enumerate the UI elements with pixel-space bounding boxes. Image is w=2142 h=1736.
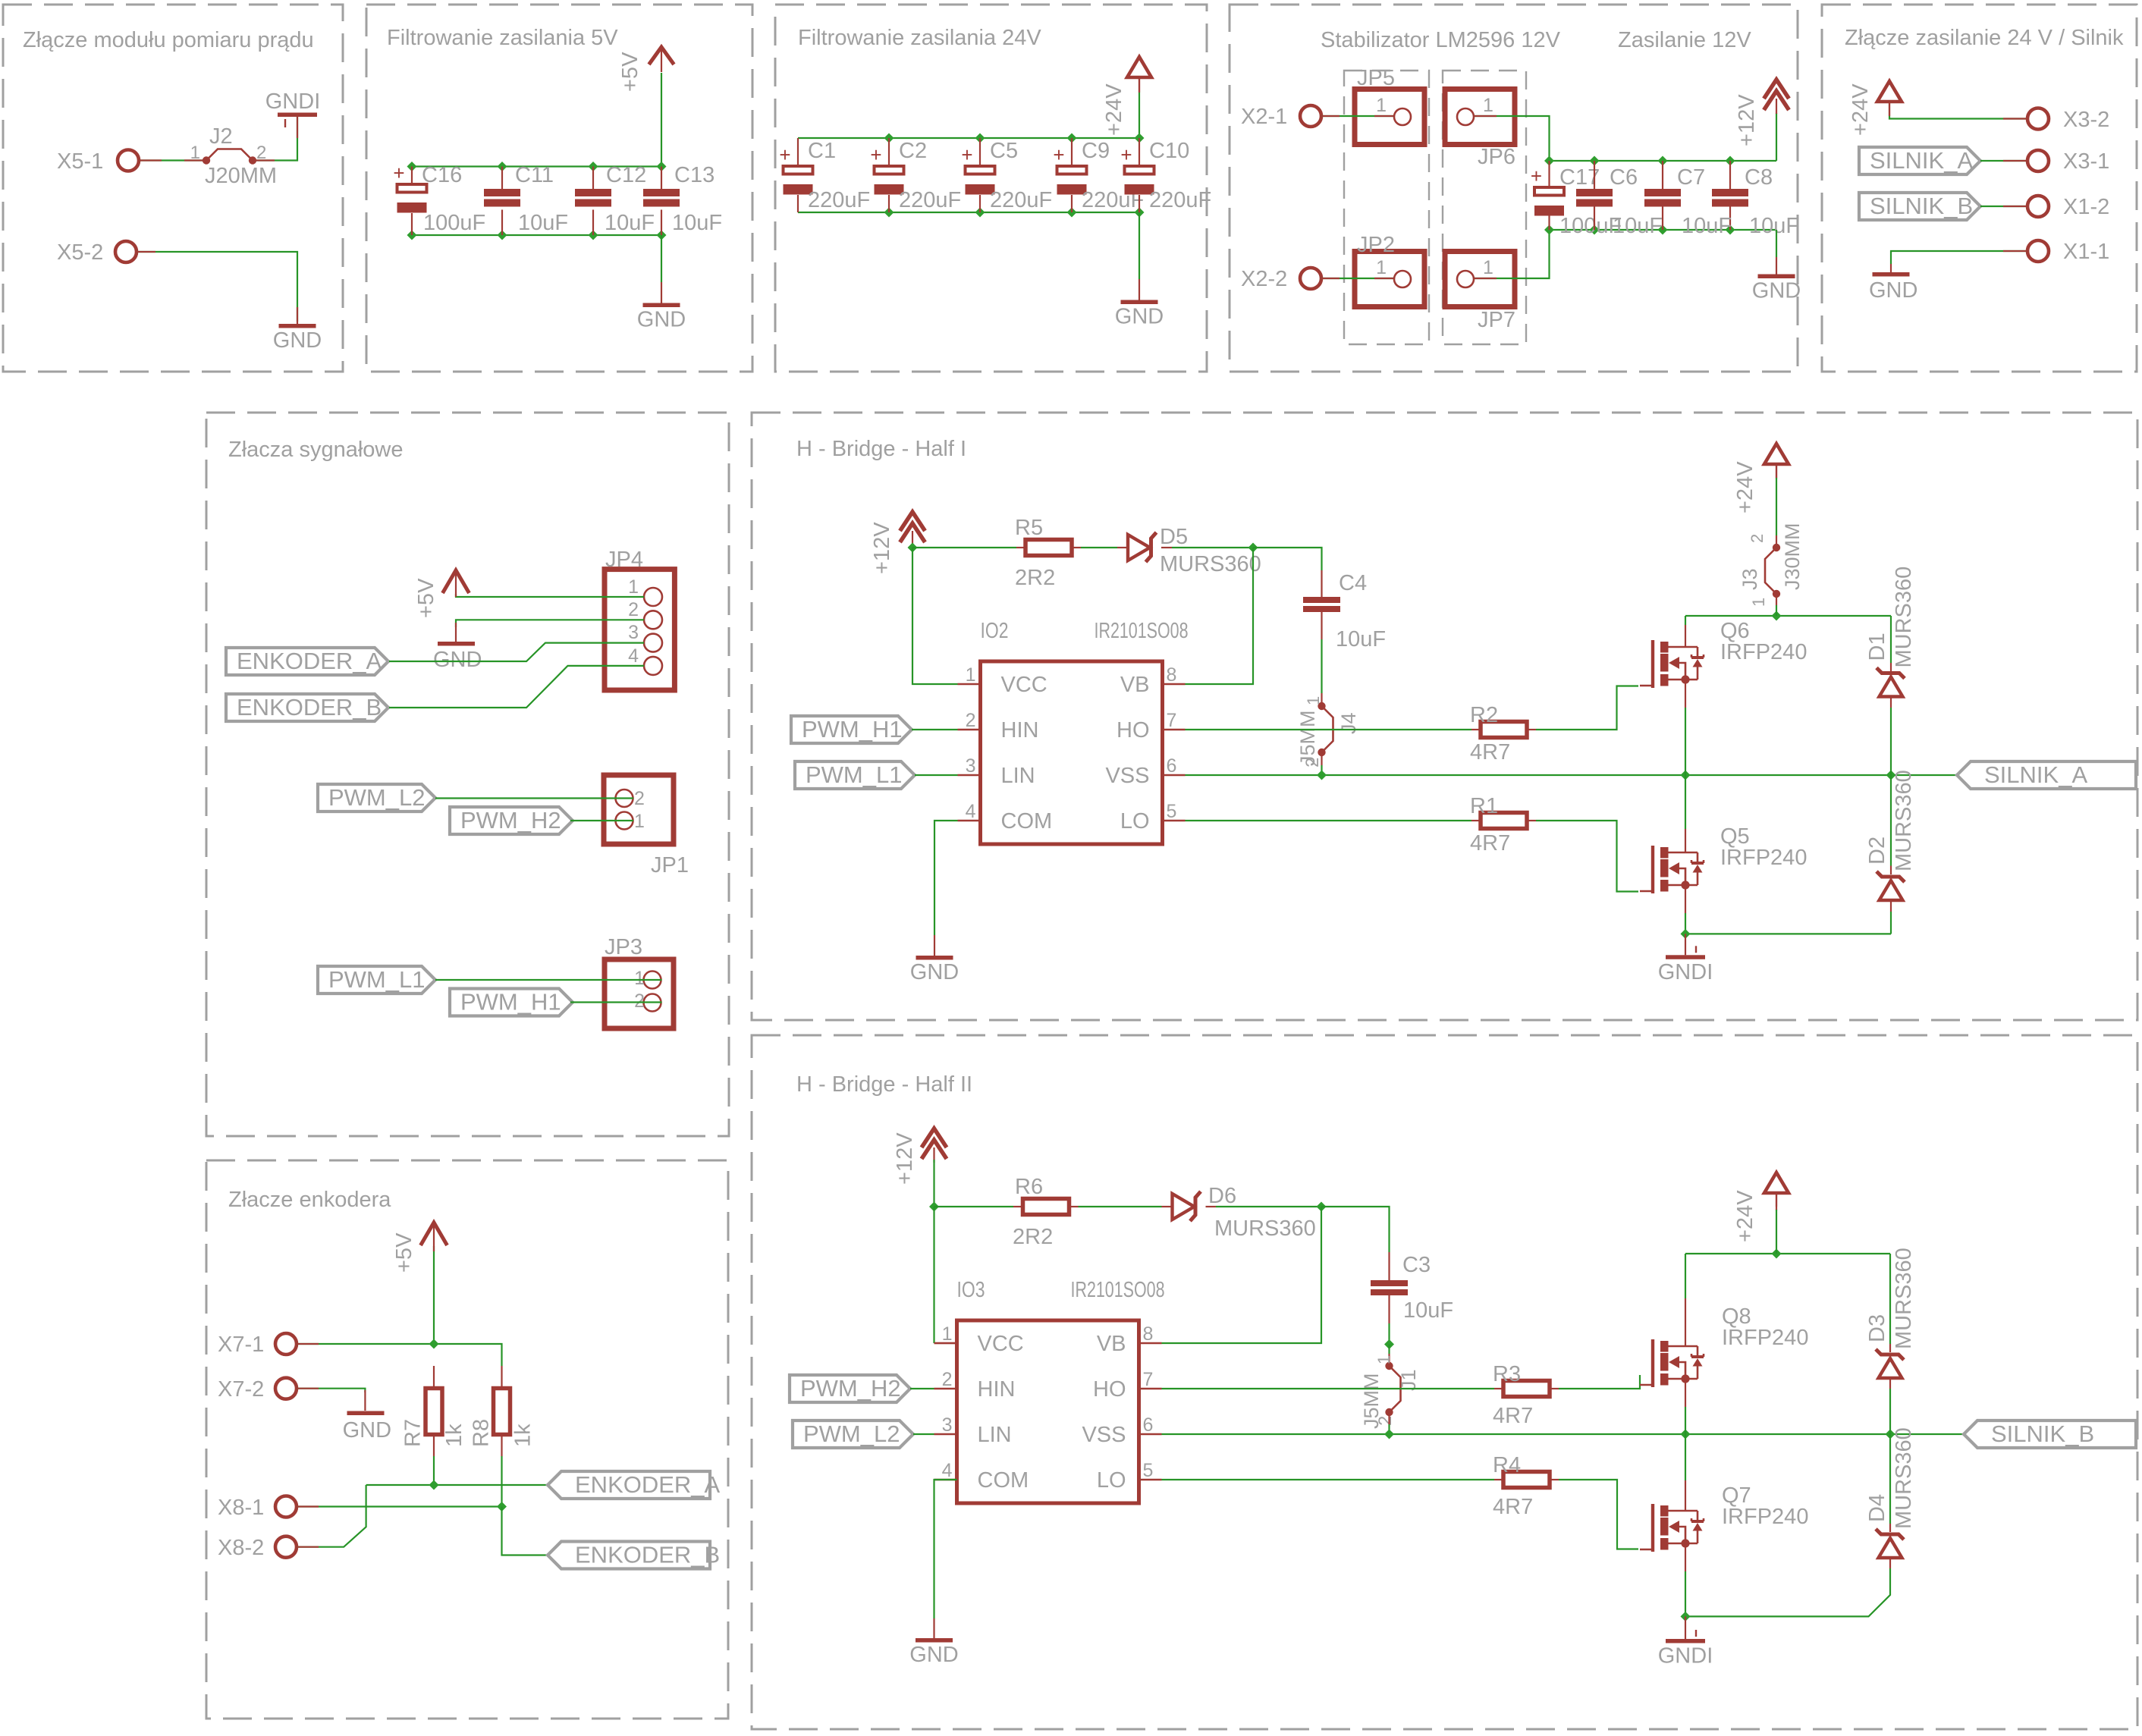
wire J3 to rail: [1776, 605, 1777, 616]
svg-text:MURS360: MURS360: [1160, 552, 1261, 576]
svg-text:VB: VB: [1097, 1332, 1126, 1356]
net HO to R2: [1186, 729, 1472, 730]
svg-text:X2-1: X2-1: [1241, 105, 1287, 129]
supply +5V (signals box): [443, 570, 470, 593]
capacitor C16: [393, 162, 426, 213]
svg-text:+12V: +12V: [870, 522, 894, 574]
net LO to R1: [1186, 820, 1472, 821]
svg-text:X8-2: X8-2: [218, 1536, 264, 1560]
svg-text:PWM_L2: PWM_L2: [328, 784, 425, 811]
svg-text:D6: D6: [1208, 1184, 1236, 1208]
wire Q6 source to SILNIK_A: [1685, 708, 1686, 775]
svg-text:X5-1: X5-1: [57, 149, 103, 174]
svg-text:C6: C6: [1610, 165, 1638, 190]
net flag PWM_H2 (signals box): [450, 807, 573, 834]
junction top rail 24V x=1413: [1067, 133, 1077, 143]
svg-text:J1: J1: [1397, 1369, 1420, 1391]
svg-text:10uF: 10uF: [1749, 214, 1799, 238]
capacitor C13: [643, 189, 680, 207]
svg-text:7: 7: [1143, 1369, 1154, 1390]
junction top rail x=662: [498, 162, 507, 171]
wire +5V down: [433, 1246, 435, 1344]
ground GNDI (half II): [1658, 1616, 1713, 1668]
capacitor C5: [961, 143, 994, 195]
svg-text:+24V: +24V: [1102, 83, 1126, 136]
wire R4 to Q7 gate: [1559, 1480, 1638, 1549]
junction bottom rail x=872: [657, 231, 667, 240]
wire J1 to VSS (half II): [1388, 1424, 1390, 1435]
junction D3-D4/SILNIK_B: [1886, 1430, 1895, 1439]
svg-text:VCC: VCC: [978, 1332, 1024, 1356]
net D5 to VB/C4: [1172, 547, 1253, 548]
wire D3 to SILNIK_B: [1889, 1389, 1891, 1434]
capacitor C8: [1712, 189, 1748, 207]
svg-text:C11: C11: [515, 163, 554, 187]
junction bottom rail 24V x=1292: [975, 208, 985, 218]
svg-text:D2: D2: [1865, 837, 1889, 865]
wire R2 to Q6 gate: [1536, 686, 1638, 730]
junction +12V rail: [908, 543, 918, 553]
svg-text:HO: HO: [1117, 718, 1150, 742]
net +12V to R5: [912, 547, 1016, 548]
svg-text:PWM_H2: PWM_H2: [800, 1375, 901, 1402]
jumper J1: [1385, 1362, 1400, 1416]
net flag ENKODER_B (encoder box): [548, 1542, 720, 1569]
net top rail 24V: [798, 137, 1139, 139]
diode D2 MURS360: [1877, 871, 1905, 900]
svg-text:ENKODER_A: ENKODER_A: [237, 648, 382, 674]
capacitor C9: [1053, 143, 1086, 195]
inner dashed outline around JP5/JP2: [1344, 71, 1429, 344]
svg-text:Filtrowanie zasilania 24V: Filtrowanie zasilania 24V: [798, 26, 1041, 50]
svg-text:2: 2: [634, 788, 645, 809]
svg-text:PWM_L1: PWM_L1: [806, 761, 902, 788]
junction top rail 24V x=1502: [1135, 133, 1145, 143]
junction bottom rail x=662: [498, 231, 507, 240]
wire R1 to Q5 gate: [1536, 821, 1638, 892]
ground GNDI (half I): [1658, 934, 1713, 984]
svg-text:1: 1: [1483, 95, 1493, 116]
svg-text:1: 1: [1749, 598, 1768, 607]
wire R8 line to ENKODER_B: [502, 1507, 548, 1555]
junction 12V bottom x=2281: [1726, 225, 1735, 235]
svg-text:7: 7: [1167, 710, 1177, 731]
svg-text:4R7: 4R7: [1493, 1495, 1533, 1519]
svg-text:J2: J2: [209, 124, 233, 149]
junction Q5 source/GNDI: [1681, 929, 1691, 939]
ground GND (half I): [910, 935, 959, 984]
wire SILNIK_B to D4: [1889, 1434, 1891, 1524]
svg-text:Filtrowanie zasilania 5V: Filtrowanie zasilania 5V: [387, 26, 618, 50]
junction top rail x=782: [589, 162, 598, 171]
junction 12V bottom x=2042.5: [1544, 225, 1554, 235]
svg-text:+24V: +24V: [1733, 1190, 1757, 1242]
svg-text:R8: R8: [470, 1419, 494, 1447]
signals box frame: Złacza sygnałowe: [206, 413, 729, 1136]
box A frame: Złącze modułu pomiaru prądu: [3, 5, 343, 372]
svg-text:10uF: 10uF: [1403, 1298, 1453, 1323]
junction top rail x=543: [407, 162, 417, 171]
svg-text:LIN: LIN: [1001, 764, 1035, 788]
svg-text:X3-2: X3-2: [2063, 108, 2109, 132]
svg-text:C4: C4: [1339, 571, 1367, 595]
svg-text:+: +: [961, 143, 972, 166]
svg-text:1: 1: [634, 968, 645, 989]
svg-text:D1: D1: [1865, 633, 1889, 661]
svg-text:Złącze zasilanie 24 V / Silnik: Złącze zasilanie 24 V / Silnik: [1845, 26, 2124, 50]
svg-text:+5V: +5V: [618, 52, 642, 92]
wire rail to GND (box C): [1139, 212, 1140, 279]
wire PWM_L2 to LIN: [913, 1433, 934, 1435]
junction 12V top x=2192: [1658, 156, 1668, 166]
svg-text:H - Bridge - Half I: H - Bridge - Half I: [796, 437, 966, 461]
svg-text:SILNIK_A: SILNIK_A: [1870, 147, 1973, 174]
junction top rail 24V x=1172: [884, 133, 894, 143]
supply +5V (encoder box): [421, 1223, 448, 1245]
svg-text:6: 6: [1167, 755, 1177, 777]
net top rail 5V: [412, 165, 661, 167]
svg-text:+12V: +12V: [1735, 94, 1759, 146]
box E frame: Złącze zasilanie 24 V / Silnik: [1822, 5, 2137, 372]
ground GNDI (box A): [265, 89, 321, 127]
junction Q7 source/GNDI: [1681, 1612, 1691, 1621]
svg-text:3: 3: [628, 622, 639, 643]
header block JP4: [605, 570, 674, 690]
wire +12V to rail (half II): [933, 1160, 934, 1207]
capacitor C7: [1644, 189, 1681, 207]
net flag PWM_L1 (signals box): [318, 966, 435, 994]
svg-text:VCC: VCC: [1001, 673, 1047, 697]
connector pad X2-1: [1241, 105, 1321, 129]
junction R7/ENKODER_A: [429, 1480, 439, 1490]
svg-text:GND: GND: [1869, 278, 1917, 303]
svg-text:D4: D4: [1865, 1494, 1889, 1522]
junction 12V top x=2281: [1726, 156, 1735, 166]
svg-text:Zasilanie 12V: Zasilanie 12V: [1618, 28, 1751, 52]
svg-text:3: 3: [942, 1414, 953, 1436]
svg-text:1: 1: [1483, 257, 1493, 278]
svg-text:VB: VB: [1120, 673, 1150, 697]
junction VB node: [1248, 543, 1258, 553]
svg-text:C16: C16: [422, 163, 462, 187]
junction bottom rail 24V x=1413: [1067, 208, 1077, 218]
svg-text:VSS: VSS: [1082, 1423, 1126, 1447]
net R5 to D5: [1081, 547, 1117, 548]
svg-text:GND: GND: [637, 308, 686, 332]
connector pad X5-2: [57, 240, 137, 265]
jumper J4: [1318, 702, 1333, 756]
resistor R4: [1503, 1472, 1550, 1488]
svg-text:4R7: 4R7: [1470, 831, 1510, 855]
header block JP3: [605, 959, 674, 1028]
connector pad X8-1: [218, 1496, 297, 1520]
svg-text:JP5: JP5: [1357, 66, 1395, 90]
wire SILNIK_A to D2: [1890, 775, 1892, 866]
wire Q5 source to GNDI rail: [1685, 913, 1686, 934]
junction X8-1/R8: [497, 1502, 507, 1512]
svg-text:220uF: 220uF: [808, 188, 870, 212]
wire rail to +12V: [1776, 113, 1777, 161]
wire JP4 pin2 to GND: [456, 620, 644, 627]
ground GND (signals box): [433, 623, 482, 672]
svg-text:+24V: +24V: [1733, 461, 1757, 513]
resistor R1: [1481, 813, 1527, 829]
svg-text:D3: D3: [1865, 1314, 1889, 1342]
svg-text:R7: R7: [401, 1419, 426, 1447]
box D frame: Stabilizator LM2596 12V: [1230, 5, 1798, 372]
net bottom rail 5V: [412, 234, 661, 236]
net flag PWM_L1 (half I): [795, 761, 915, 789]
wire X5-2 to GND: [137, 252, 297, 322]
svg-text:1: 1: [1374, 1355, 1393, 1364]
transistor Q8 IRFP240: [1640, 1304, 1808, 1387]
jumper block JP2: [1355, 233, 1424, 307]
svg-text:MURS360: MURS360: [1892, 1427, 1916, 1529]
wire C3 to J1: [1388, 1323, 1390, 1345]
H-Bridge Half I frame: [752, 413, 2137, 1020]
capacitor C17: [1531, 165, 1564, 216]
svg-text:X7-2: X7-2: [218, 1377, 264, 1402]
IC IO2 IR2101SO08: [958, 619, 1189, 844]
resistor R6: [1023, 1199, 1069, 1215]
svg-text:10uF: 10uF: [605, 211, 655, 235]
svg-text:J4: J4: [1337, 712, 1360, 734]
svg-text:1: 1: [1376, 257, 1387, 278]
connector pad X2-2: [1241, 267, 1321, 291]
junction 12V top x=2042.5: [1544, 156, 1554, 166]
svg-text:+24V: +24V: [1848, 83, 1873, 136]
resistor R2: [1481, 722, 1527, 738]
junction top rail x=872: [657, 162, 667, 171]
wire VB to bootstrap: [1186, 548, 1254, 684]
supply +12V (box D): [1764, 80, 1789, 114]
svg-text:C3: C3: [1402, 1253, 1431, 1277]
svg-text:JP3: JP3: [605, 935, 642, 959]
jumper block JP6: [1445, 89, 1515, 170]
wire D1 to SILNIK_A: [1890, 708, 1892, 775]
svg-text:J3: J3: [1738, 568, 1761, 590]
svg-text:100uF: 100uF: [423, 211, 485, 235]
svg-text:IO3: IO3: [957, 1278, 985, 1302]
svg-text:JP4: JP4: [605, 548, 643, 572]
svg-text:10uF: 10uF: [672, 211, 722, 235]
svg-text:3: 3: [966, 755, 976, 777]
svg-text:LO: LO: [1097, 1468, 1126, 1493]
svg-text:4: 4: [966, 801, 976, 822]
wire Q7 source to GNDI rail: [1685, 1571, 1686, 1616]
svg-text:SILNIK_B: SILNIK_B: [1991, 1421, 2094, 1447]
svg-text:X3-1: X3-1: [2063, 149, 2109, 174]
junction 12V top x=2102: [1590, 156, 1600, 166]
wire rail to D1: [1890, 616, 1892, 663]
wire +24V down to rail: [1776, 1210, 1777, 1254]
wire rail to D3: [1889, 1254, 1891, 1344]
svg-text:GND: GND: [909, 1643, 958, 1667]
svg-text:PWM_H1: PWM_H1: [460, 989, 561, 1016]
diode D5: [1128, 532, 1157, 562]
svg-text:R6: R6: [1015, 1175, 1043, 1199]
junction bottom rail x=782: [589, 231, 598, 240]
wire Q6 drain to +24V rail: [1685, 616, 1686, 625]
net bottom rail 24V: [798, 212, 1139, 213]
junction C3/J1: [1384, 1339, 1394, 1349]
svg-text:Złacze enkodera: Złacze enkodera: [228, 1188, 391, 1212]
wire +24V to X3-2: [1889, 115, 2027, 119]
svg-text:J5MM: J5MM: [1296, 711, 1319, 767]
wire VCC to +12V: [912, 548, 958, 684]
svg-text:10uF: 10uF: [1613, 214, 1663, 238]
wire +5V down to rail: [661, 73, 662, 167]
svg-text:GND: GND: [910, 960, 959, 984]
svg-text:GND: GND: [433, 648, 482, 672]
svg-text:HIN: HIN: [1001, 718, 1039, 742]
svg-text:X7-1: X7-1: [218, 1333, 264, 1357]
svg-text:4: 4: [628, 645, 639, 667]
supply +24V (half I): [1764, 444, 1789, 478]
svg-text:X2-2: X2-2: [1241, 267, 1287, 291]
svg-text:220uF: 220uF: [899, 188, 961, 212]
wire VB to bootstrap (half II): [1162, 1207, 1322, 1343]
junction J3 bottom/rail: [1772, 611, 1782, 621]
svg-text:C7: C7: [1677, 165, 1705, 190]
net top +24V rail (half I): [1685, 615, 1891, 617]
wire Q8 drain to +24V rail: [1685, 1254, 1686, 1298]
svg-text:+: +: [1120, 143, 1132, 166]
svg-text:1: 1: [1376, 95, 1387, 116]
junction bottom rail 24V x=1502: [1135, 208, 1145, 218]
inner dashed outline around JP6/JP7: [1443, 71, 1526, 344]
connector pad X7-1: [218, 1333, 297, 1357]
jumper J2: [203, 149, 256, 165]
svg-text:LIN: LIN: [978, 1423, 1012, 1447]
capacitor C11: [484, 189, 520, 207]
net flag SILNIK_B (box E): [1859, 193, 1980, 220]
diode D4 MURS360: [1876, 1529, 1904, 1558]
connector pad X1-1: [2027, 240, 2109, 264]
net flag PWM_L2 (signals box): [318, 784, 435, 811]
net to C3: [1321, 1207, 1390, 1252]
encoder box frame: Złacze enkodera: [206, 1160, 728, 1719]
svg-text:PWM_H2: PWM_H2: [460, 807, 561, 833]
svg-text:1k: 1k: [511, 1424, 535, 1447]
svg-text:C2: C2: [899, 139, 927, 163]
svg-text:+: +: [393, 162, 404, 184]
ground GND (box A): [273, 307, 322, 353]
svg-text:ENKODER_A: ENKODER_A: [575, 1471, 721, 1498]
wire C4 to J4: [1321, 639, 1322, 693]
net flag SILNIK_B (half II): [1964, 1421, 2136, 1448]
wire X2-1 to JP5: [1321, 115, 1394, 117]
connector pad X8-2: [218, 1536, 297, 1560]
wire X5-1 to J2 pin1: [140, 159, 203, 161]
svg-text:IR2101SO08: IR2101SO08: [1095, 619, 1189, 643]
wire R7 bottom to ENKODER_A net: [433, 1456, 435, 1485]
transistor Q7 IRFP240: [1640, 1483, 1808, 1552]
wire R8 bottom to X8-1 line: [501, 1456, 502, 1507]
capacitor C6: [1576, 189, 1613, 207]
net flag SILNIK_A (half I): [1957, 761, 2136, 789]
box B frame: Filtrowanie zasilania 5V: [366, 5, 752, 372]
junction J1/VSS: [1384, 1430, 1394, 1439]
wire X8-2 up to ENKODER_A net: [297, 1485, 366, 1547]
svg-text:Złacza sygnałowe: Złacza sygnałowe: [228, 438, 404, 462]
svg-text:C10: C10: [1149, 139, 1189, 163]
connector pad X7-2: [218, 1377, 297, 1402]
resistor R7: [426, 1389, 442, 1435]
svg-text:R2: R2: [1470, 703, 1498, 727]
wire +12V to rail: [912, 545, 913, 548]
junction VB node (half II): [1317, 1202, 1327, 1212]
resistor R3: [1503, 1381, 1550, 1397]
wire D2 to GNDI rail: [1890, 912, 1892, 934]
svg-text:COM: COM: [1001, 809, 1053, 833]
svg-text:R4: R4: [1493, 1453, 1521, 1477]
svg-text:IRFP240: IRFP240: [1720, 640, 1807, 664]
wire Q5 drain to SILNIK_A: [1685, 775, 1686, 829]
supply +24V (half II): [1764, 1173, 1789, 1207]
net GNDI rail (half I): [1685, 933, 1891, 934]
svg-text:1k: 1k: [442, 1424, 466, 1447]
junction bottom rail x=543: [407, 231, 417, 240]
junction +12V rail (half II): [929, 1202, 939, 1212]
svg-text:1: 1: [190, 143, 200, 163]
svg-text:R3: R3: [1493, 1362, 1521, 1386]
svg-text:Złącze modułu pomiaru prądu: Złącze modułu pomiaru prądu: [23, 28, 314, 52]
svg-text:+: +: [870, 143, 881, 166]
svg-text:MURS360: MURS360: [1892, 1248, 1916, 1349]
svg-text:1: 1: [628, 576, 639, 598]
wire JP6 to 12V rail: [1474, 116, 1550, 161]
net LO to R4: [1162, 1479, 1495, 1480]
svg-text:+: +: [779, 143, 790, 166]
wire PWM_H1 to HIN: [912, 729, 958, 730]
svg-text:MURS360: MURS360: [1214, 1216, 1316, 1241]
wire PWM_L2 to JP1 pin2: [435, 797, 633, 799]
transistor Q6 IRFP240: [1640, 619, 1807, 688]
ground GND (box E): [1869, 264, 1917, 303]
net VSS / SILNIK_B: [1162, 1433, 1965, 1435]
svg-text:220uF: 220uF: [990, 188, 1052, 212]
svg-text:JP2: JP2: [1357, 233, 1395, 257]
ground GND (box D): [1752, 257, 1801, 303]
supply +12V (half I): [900, 512, 925, 546]
transistor Q5 IRFP240: [1640, 824, 1807, 893]
svg-text:C8: C8: [1745, 165, 1773, 190]
capacitor C12: [575, 189, 611, 207]
ground GND (box C): [1115, 279, 1164, 329]
svg-text:2: 2: [634, 990, 645, 1012]
net +12V to R6: [934, 1206, 1014, 1207]
wire VCC to +12V (half II): [933, 1207, 934, 1343]
svg-text:6: 6: [1143, 1414, 1154, 1436]
svg-text:4R7: 4R7: [1470, 740, 1510, 764]
svg-text:GND: GND: [273, 328, 322, 353]
junction 12V bottom x=2192: [1658, 225, 1668, 235]
svg-text:1: 1: [966, 664, 976, 686]
wire ENKODER_B to JP4 pin4: [389, 666, 644, 708]
jumper block JP7: [1445, 252, 1515, 333]
svg-text:2: 2: [1748, 534, 1767, 543]
connector pad X3-1: [2027, 149, 2109, 174]
junction 12V bottom x=2102: [1590, 225, 1600, 235]
svg-text:+: +: [1531, 165, 1542, 187]
wire PWM_L1 to LIN: [915, 774, 958, 776]
junction Q6-Q5/SILNIK_A: [1681, 771, 1691, 780]
svg-text:Stabilizator LM2596 12V: Stabilizator LM2596 12V: [1321, 28, 1561, 52]
svg-text:PWM_H1: PWM_H1: [802, 716, 903, 742]
wire +24V down to rail: [1139, 91, 1140, 138]
svg-text:+5V: +5V: [392, 1232, 416, 1273]
